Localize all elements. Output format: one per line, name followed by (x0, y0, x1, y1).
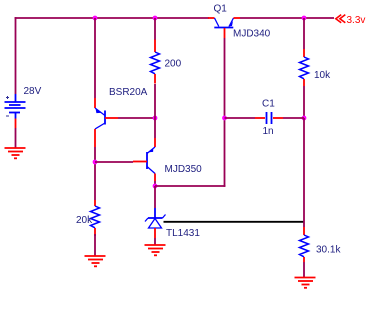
ground (battery) (5, 148, 26, 158)
label BSR20A (109, 87, 148, 98)
wire C1 to node (304,118) (283, 117, 304, 119)
node dot (95,162) (93, 160, 98, 165)
resistor 10k (300, 49, 309, 86)
resistor 20k (91, 200, 100, 236)
svg-text:20k: 20k (76, 215, 93, 226)
shunt reference TL1431 (145, 208, 166, 238)
connector chevron 3.3v (336, 15, 346, 23)
wire battery to ground (15, 128, 17, 148)
label MJD350 (165, 164, 203, 175)
wire TL1431 REF (black) (164, 221, 305, 223)
svg-text:3.3v: 3.3v (347, 15, 366, 26)
svg-text:10k: 10k (314, 70, 331, 81)
transistor Q1 MJD340 (208, 18, 240, 38)
node dot (155,118) (153, 116, 158, 121)
label 10k (314, 70, 331, 81)
transistor BSR20A (95, 98, 118, 147)
wire 20k to ground (94, 234, 96, 256)
wire Q1 collector vertical x225 (225, 38, 226, 187)
node dot (304,118) (302, 116, 307, 121)
label 200 (165, 59, 182, 70)
svg-text:MJD340: MJD340 (233, 29, 271, 40)
node dot (95,18) (93, 16, 98, 21)
svg-text:C1: C1 (262, 99, 275, 110)
wire x155 resistor 200 to node (155,118) (154, 84, 156, 118)
wire node (155,186) to Q1 collector corner (155, 185, 225, 187)
label C1 (262, 99, 275, 110)
wire top rail right segment (240, 17, 334, 19)
label 28V (24, 86, 42, 97)
ground (20k) (85, 256, 106, 266)
wire x155 node to MJD350 emitter (154, 118, 156, 138)
wire BSR20A base to node (155,118) (118, 117, 155, 119)
svg-text:30.1k: 30.1k (316, 245, 341, 256)
svg-text:Q1: Q1 (214, 4, 228, 15)
node dot (225,118) (222, 116, 227, 121)
svg-text:200: 200 (165, 59, 182, 70)
node dot (304,18) (302, 16, 307, 21)
ground (30.1k) (295, 278, 316, 288)
label TL1431 (166, 228, 200, 239)
wire TL1431 anode to ground (154, 238, 156, 245)
label 30.1k (316, 245, 341, 256)
wire x95 BSR20A collector down to node (94, 147, 96, 200)
resistor 200 (151, 40, 160, 84)
wire x155 MJD350 collector to node (154, 181, 156, 186)
wire top rail left segment (15, 17, 209, 19)
wire node (225,118) to C1 (225, 117, 256, 119)
svg-text:BSR20A: BSR20A (109, 87, 148, 98)
svg-text:1n: 1n (263, 126, 274, 137)
wire left rail vertical (15, 17, 17, 94)
svg-text:28V: 28V (24, 86, 42, 97)
label 20k (76, 215, 93, 226)
wire x304 node down to 30.1k (303, 118, 305, 227)
wire x304 10k to node (304,118) (303, 86, 305, 118)
battery V1 28V (5, 94, 26, 128)
svg-text:TL1431: TL1431 (166, 228, 200, 239)
label 3.3v (347, 15, 366, 26)
label 1n (263, 126, 274, 137)
ground (TL1431) (145, 245, 166, 255)
wire x155 top rail to resistor 200 (154, 18, 156, 40)
node dot (155,18) (153, 16, 158, 21)
node dot (155,186) (153, 184, 158, 189)
transistor MJD350 (133, 138, 155, 181)
label MJD340 (233, 29, 271, 40)
label Q1 (214, 4, 228, 15)
wire x304 top rail to 10k (303, 18, 305, 49)
capacitor C1 (255, 112, 283, 124)
wire 30.1k to ground (303, 262, 305, 277)
resistor 30.1k (300, 227, 309, 262)
svg-text:MJD350: MJD350 (165, 164, 203, 175)
wire x95 from top rail down to BSR20A (94, 18, 96, 98)
wire x155 node to TL1431 (154, 186, 156, 208)
wire node (95,162) to MJD350 base (95, 161, 133, 163)
